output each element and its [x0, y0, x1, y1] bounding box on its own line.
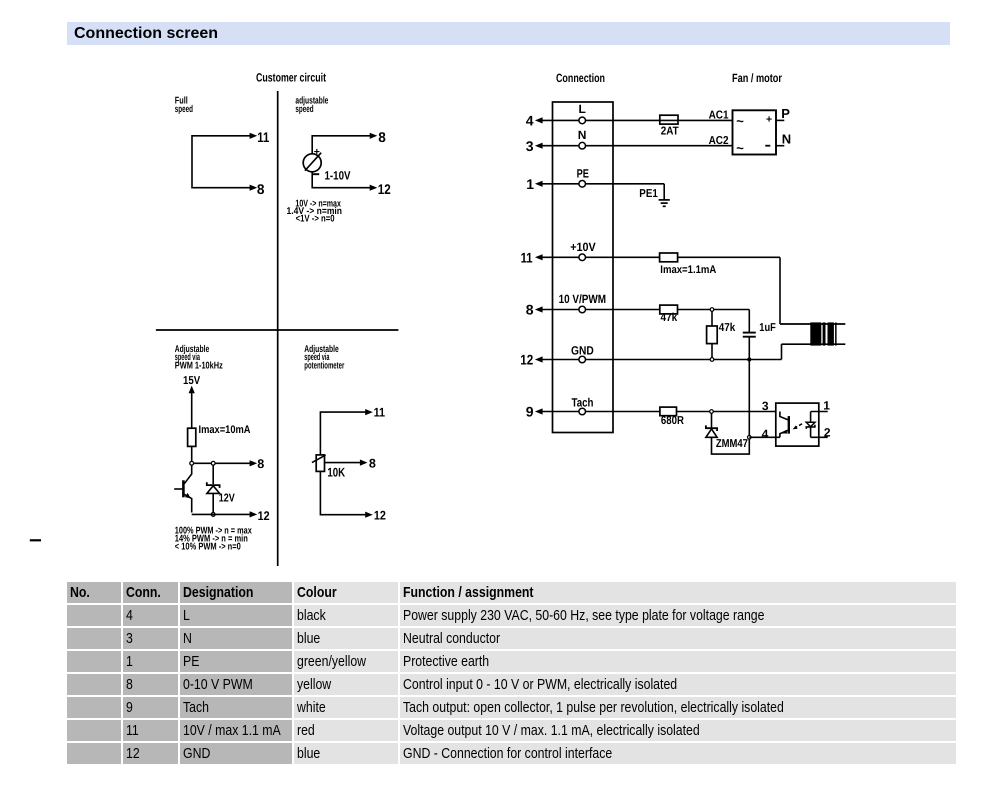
terminal 11 wire left	[542, 256, 579, 258]
zener ZMM47 bar	[706, 425, 717, 431]
svg-text:+: +	[314, 146, 320, 158]
svg-text:1-10V: 1-10V	[325, 168, 351, 182]
svg-text:10K: 10K	[327, 465, 345, 479]
cable block 4	[835, 322, 837, 345]
svg-text:12: 12	[258, 509, 270, 523]
terminal 3 wire left	[542, 145, 579, 147]
label Adjustable speed via potentiometer	[304, 344, 344, 371]
junction tach zener open	[710, 410, 714, 414]
cable block 3	[828, 322, 834, 345]
svg-text:11: 11	[374, 405, 386, 419]
terminal 9 circle	[579, 408, 586, 415]
terminal 3 circle	[579, 142, 586, 149]
svg-text:680R: 680R	[661, 415, 685, 427]
wire GND up jog	[781, 344, 783, 359]
svg-text:+: +	[766, 114, 772, 126]
svg-text:~: ~	[736, 114, 744, 129]
title bar	[67, 22, 950, 45]
capacitor 1uF plate bottom	[743, 336, 756, 338]
node junction open	[190, 461, 194, 465]
cable block 1	[810, 322, 821, 345]
opto pin4 wire	[749, 436, 780, 438]
transistor Q1 base bar	[182, 480, 185, 497]
ground PE1	[659, 200, 670, 206]
wire +10V right	[586, 256, 781, 258]
svg-text:GND: GND	[571, 343, 594, 357]
svg-text:1uF: 1uF	[759, 322, 776, 334]
terminal 1 circle	[579, 181, 586, 188]
terminal 4 circle	[579, 117, 586, 124]
svg-text:12: 12	[378, 181, 391, 197]
resistor Imax=10mA	[188, 428, 196, 446]
terminal 9 arrow	[535, 408, 543, 414]
label adjustable speed	[295, 96, 328, 116]
transistor Q1 base wire	[174, 488, 182, 490]
wire L to fuse to AC1	[586, 119, 733, 121]
svg-text:47k: 47k	[719, 322, 736, 334]
opto LED triangle	[806, 422, 815, 426]
svg-text:8: 8	[378, 129, 386, 145]
arrow to 12	[250, 511, 258, 517]
wiper wire to 8	[325, 462, 361, 464]
arrow to 8	[370, 133, 378, 139]
bottom rail to 12	[192, 513, 251, 515]
wire GND right	[586, 359, 782, 361]
cable top line	[780, 323, 845, 325]
svg-text:potentiometer: potentiometer	[304, 360, 344, 371]
terminal 11 arrow	[535, 254, 543, 260]
minus sign	[313, 173, 319, 175]
cable block 2	[823, 322, 826, 345]
terminal 12 circle	[579, 356, 586, 363]
wire node down to 47k	[711, 311, 713, 326]
node junction zener top	[211, 461, 215, 465]
wire node to 8	[194, 462, 251, 464]
arrow to 11	[250, 133, 258, 139]
customer circuit divider horizontal	[156, 329, 399, 331]
svg-text:Customer circuit: Customer circuit	[256, 71, 326, 85]
PWM mapping note	[175, 526, 252, 553]
wire gnd down to pin4	[748, 360, 750, 438]
terminal 12 arrow	[535, 356, 543, 362]
wire N to AC2	[586, 145, 733, 147]
svg-text:Imax=1.1mA: Imax=1.1mA	[660, 264, 716, 276]
terminal 8 arrow	[535, 306, 543, 312]
svg-text:ZMM47: ZMM47	[716, 438, 748, 450]
15V supply arrow up	[189, 386, 195, 394]
resistor 680R	[660, 407, 677, 416]
wire PE right	[586, 183, 665, 185]
wire pwm down to cap	[748, 310, 750, 332]
svg-text:11: 11	[521, 249, 533, 265]
zener ZMM47 top wire	[711, 413, 713, 428]
svg-text:4: 4	[762, 427, 769, 441]
voltage source diagonal	[305, 153, 321, 171]
junction gnd 47k open	[710, 358, 714, 362]
svg-text:N: N	[782, 132, 791, 147]
svg-text:Tach: Tach	[572, 395, 594, 409]
terminal 8 circle	[579, 306, 586, 313]
svg-text:Connection: Connection	[556, 71, 605, 85]
wire 10V/PWM right	[586, 309, 750, 311]
resistor 47k vertical	[707, 326, 718, 344]
opto emitter arrow	[782, 430, 788, 434]
wire resistor to node	[191, 446, 193, 461]
label Adjustable speed via PWM	[175, 344, 223, 371]
svg-text:Fan / motor: Fan / motor	[732, 71, 782, 85]
svg-text:PWM 1-10kHz: PWM 1-10kHz	[175, 360, 223, 371]
transistor Q1 emitter	[184, 494, 191, 512]
wire 47k to GND rail	[711, 344, 713, 360]
junction gnd cap filled	[747, 357, 751, 361]
full speed bridge wire 11-8	[192, 136, 251, 188]
terminal 11 circle	[579, 254, 586, 261]
stub N	[776, 145, 784, 147]
optocoupler U1 box	[776, 403, 819, 446]
svg-text:8: 8	[526, 302, 534, 318]
opto phototransistor collector	[780, 412, 788, 420]
zener top wire	[212, 465, 214, 484]
svg-text:1: 1	[823, 399, 830, 413]
svg-text:12V: 12V	[219, 493, 235, 505]
terminal 12 wire left	[542, 359, 579, 361]
adjustable speed wire to 8	[312, 136, 371, 154]
svg-text:<1V -> n=0: <1V -> n=0	[296, 213, 335, 224]
svg-text:1: 1	[526, 176, 534, 192]
potentiometer top wire to 11	[320, 412, 366, 455]
arrow to 12	[370, 185, 378, 191]
opto phototransistor emitter	[780, 430, 788, 437]
svg-text:< 10% PWM -> n=0: < 10% PWM -> n=0	[175, 541, 241, 552]
opto pin1 wire	[811, 411, 828, 413]
opto light arrow	[795, 424, 802, 428]
wire PE down	[663, 184, 665, 200]
wire +10V down	[779, 257, 781, 324]
opto phototransistor bar	[788, 416, 790, 434]
minus terminal	[765, 145, 770, 147]
connection table	[65, 580, 958, 766]
node junction bottom	[211, 513, 215, 517]
opto LED bottom wire	[810, 427, 812, 437]
terminal 8 wire left	[542, 309, 579, 311]
potentiometer wiper diagonal	[312, 455, 326, 463]
terminal 1 wire left	[542, 183, 579, 185]
arrow to 12	[365, 512, 373, 518]
svg-text:3: 3	[762, 399, 769, 413]
svg-text:12: 12	[520, 352, 533, 368]
cable bottom line	[782, 343, 846, 345]
zener ZMM47 triangle	[706, 429, 717, 437]
terminal 4 wire left	[542, 119, 579, 121]
voltage mapping note	[287, 199, 343, 225]
junction pwm node	[710, 308, 714, 312]
junction pin4 open	[748, 436, 752, 440]
terminal 4 arrow	[535, 117, 543, 123]
potentiometer bottom wire to 12	[320, 471, 366, 514]
terminal block box	[553, 102, 614, 433]
transistor Q1 collector	[184, 465, 191, 484]
svg-text:speed: speed	[175, 104, 193, 115]
arrow to 8	[360, 460, 368, 466]
15V supply wire	[191, 392, 193, 429]
svg-text:11: 11	[257, 129, 269, 145]
svg-text:PE1: PE1	[639, 188, 658, 200]
svg-text:AC1: AC1	[709, 109, 730, 121]
opto LED top wire	[810, 412, 812, 423]
fan motor box	[733, 110, 777, 154]
svg-text:47k: 47k	[661, 312, 678, 324]
zener D1 triangle	[207, 486, 220, 494]
resistor 47k horizontal	[660, 305, 678, 314]
voltage source circle	[303, 154, 321, 172]
svg-text:L: L	[579, 102, 586, 116]
svg-text:10 V/PWM: 10 V/PWM	[559, 292, 607, 306]
svg-text:PE: PE	[577, 166, 589, 180]
svg-text:Imax=10mA: Imax=10mA	[199, 424, 251, 436]
svg-text:2: 2	[824, 426, 831, 440]
svg-text:3: 3	[526, 138, 534, 154]
svg-text:8: 8	[369, 456, 376, 470]
capacitor 1uF plate top	[743, 332, 756, 334]
adjustable speed wire to 12	[312, 172, 371, 188]
fuse 2AT	[660, 115, 678, 124]
svg-text:12: 12	[374, 508, 386, 522]
svg-text:2AT: 2AT	[661, 126, 679, 138]
svg-text:8: 8	[257, 181, 265, 197]
svg-text:N: N	[578, 128, 587, 142]
zener ZMM47 bottom wire	[712, 437, 750, 454]
terminal 9 wire left	[542, 411, 579, 413]
svg-text:9: 9	[526, 404, 534, 420]
svg-text:speed: speed	[295, 104, 313, 115]
opto LED bar	[806, 425, 815, 429]
svg-text:AC2: AC2	[709, 135, 729, 147]
customer circuit divider vertical	[277, 91, 279, 566]
opto pin2 wire	[811, 436, 828, 438]
svg-text:~: ~	[736, 141, 744, 156]
arrow to 11	[365, 409, 373, 415]
label Full speed	[175, 96, 193, 116]
arrow to 8	[250, 460, 258, 466]
arrow to 8	[250, 185, 258, 191]
stub P	[776, 119, 784, 121]
transistor Q1 emitter arrow	[185, 493, 191, 499]
svg-text:8: 8	[257, 457, 264, 471]
potentiometer R body	[316, 455, 324, 472]
svg-text:4: 4	[526, 113, 534, 129]
zener bottom wire	[212, 493, 214, 512]
wire cap to GND rail	[748, 338, 750, 360]
opto light arrow head	[793, 426, 798, 430]
svg-text:P: P	[781, 106, 790, 121]
terminal 1 arrow	[535, 181, 543, 187]
wire Tach right	[586, 411, 776, 413]
zener D1 bar	[207, 482, 220, 488]
terminal 3 arrow	[535, 143, 543, 149]
svg-text:15V: 15V	[183, 375, 200, 387]
svg-text:+10V: +10V	[570, 240, 596, 254]
resistor Imax=1.1mA	[660, 253, 678, 262]
page margin dash	[30, 539, 41, 541]
